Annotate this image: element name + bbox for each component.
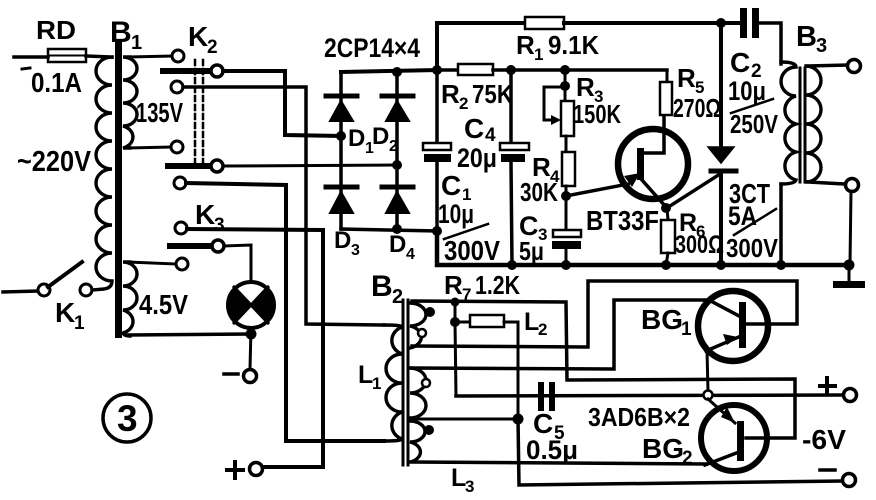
svg-text:2: 2 [207, 37, 218, 58]
svg-text:D: D [348, 125, 365, 152]
svg-text:1: 1 [372, 374, 381, 393]
wire AC input top lead [14, 55, 48, 59]
svg-text:135V: 135V [136, 97, 183, 128]
wire L2 line down to R7 [454, 302, 457, 322]
svg-text:1: 1 [534, 45, 543, 64]
wire 4.5V top tap [128, 262, 176, 264]
svg-text:1.2K: 1.2K [475, 270, 520, 300]
svg-text:4.5V: 4.5V [139, 289, 188, 320]
label plus [227, 462, 243, 478]
wire R7 left down to C5 line [455, 322, 456, 396]
svg-text:C: C [441, 170, 461, 201]
svg-text:5μ: 5μ [519, 236, 544, 266]
junction lamp / 4.5V bottom [246, 329, 257, 340]
transistor BG1 [698, 291, 768, 361]
diode D4 [382, 187, 413, 213]
stray mark [22, 68, 30, 69]
BG2 emitter arrowhead [721, 407, 735, 423]
capacitor C1 (on bridge output) [423, 70, 451, 231]
transformer B1 core [115, 40, 122, 338]
wire C5 line to plus terminal [456, 395, 842, 396]
resistor R5 [660, 70, 672, 115]
svg-text:3: 3 [351, 242, 360, 259]
wire K2 blade2 to bridge node B [223, 165, 395, 166]
L2 lower dot [418, 329, 426, 337]
terminal minus (4.5V) [244, 370, 257, 383]
svg-text:2: 2 [538, 320, 547, 339]
svg-text:5A: 5A [728, 201, 757, 231]
diode branch D2-D4 vertical [395, 72, 399, 229]
diode D3 [326, 187, 357, 213]
wire K2 row3 to B2 L1 top [183, 87, 384, 325]
svg-text:L: L [358, 361, 373, 389]
svg-text:9.1K: 9.1K [548, 30, 599, 60]
switch K3 contact rowA [174, 177, 186, 189]
wire K3 rowB to plus terminal [187, 229, 323, 467]
wire L3 top to BG1 base [412, 300, 711, 369]
junction C4 bottom [507, 260, 517, 270]
winding L1 [384, 325, 402, 441]
capacitor C4 (after R2) [500, 70, 529, 265]
B1 secondary 135V winding [123, 57, 137, 148]
svg-text:3: 3 [117, 398, 138, 439]
junction bridge minus output [432, 226, 442, 236]
switch K1 [38, 262, 92, 296]
svg-text:1: 1 [681, 319, 692, 340]
svg-text:R: R [516, 30, 535, 60]
bridge bottom rail [341, 229, 437, 231]
svg-text:1: 1 [131, 32, 142, 54]
label minus [224, 372, 238, 376]
switch K2 contact row4 (135V bottom) [171, 141, 183, 153]
svg-text:10μ: 10μ [728, 76, 766, 106]
node A junction (AC in left) [336, 131, 346, 141]
svg-text:30K: 30K [520, 177, 558, 207]
capacitor C3 [552, 230, 581, 265]
label plus output [820, 378, 835, 393]
terminal B3 bottom [846, 179, 859, 192]
switch K2 contact row1 (135V top) [172, 50, 184, 62]
junction R7 left [450, 317, 460, 327]
junction emitter node [561, 191, 571, 201]
junction bridge bottom D4 [392, 224, 402, 234]
terminal plus (bottom) [250, 463, 263, 476]
svg-text:B: B [110, 16, 132, 49]
wire lamp bottom to minus terminal [250, 328, 251, 369]
junction C3 bottom [561, 260, 571, 270]
wire R1 to C2 [564, 21, 741, 25]
indicator lamp [227, 282, 274, 328]
L2 polarity dot [425, 307, 435, 317]
unijunction transistor BT33F [566, 115, 688, 207]
resistor R7 [455, 315, 518, 419]
svg-text:D: D [372, 123, 389, 150]
emitter junction circle on plus line [704, 391, 713, 400]
svg-text:3: 3 [465, 477, 474, 496]
wire L2 bottom to BG1 collector [412, 281, 797, 347]
switch K3 contact rowB [175, 222, 187, 234]
svg-text:BT33F: BT33F [586, 205, 659, 236]
svg-text:BG: BG [642, 433, 684, 464]
junction R6 bottom [661, 260, 671, 270]
svg-text:0.5μ: 0.5μ [526, 435, 578, 465]
resistor R2 [458, 64, 493, 75]
L3 lower polarity dot [424, 425, 434, 435]
terminal minus output [843, 474, 856, 487]
wire bridge minus to bottom rail [437, 231, 849, 265]
svg-text:BG: BG [641, 304, 683, 335]
svg-text:D: D [389, 231, 406, 258]
wire R4 to emitter node [565, 186, 568, 230]
svg-text:0.1A: 0.1A [31, 67, 82, 98]
junction top rail / SCR anode [716, 18, 726, 28]
wire 4.5V bottom tap to lamp [128, 334, 251, 335]
svg-text:10μ: 10μ [438, 199, 474, 229]
svg-text:K: K [195, 199, 215, 230]
svg-text:-6V: -6V [802, 424, 846, 455]
wire K3 blade to lamp [224, 245, 251, 282]
thyristor 3CT [670, 23, 736, 265]
svg-text:250V: 250V [730, 109, 779, 139]
wire L3 mid tap [412, 418, 518, 421]
svg-text:L: L [524, 308, 539, 336]
switch K2 contact row3 [171, 81, 183, 93]
fuse RD 0.1A [48, 49, 112, 62]
junction ground node [844, 260, 855, 271]
resistor R4 [562, 152, 575, 186]
wire K3 rowA to B2 L1 bottom [186, 183, 384, 441]
junction C4 top [506, 65, 516, 75]
svg-text:20μ: 20μ [457, 143, 497, 173]
svg-text:K: K [55, 297, 75, 328]
svg-text:B: B [371, 270, 393, 303]
capacitor C2 [740, 8, 781, 64]
wire AC input bottom lead [3, 291, 37, 292]
wire junction down to minus rail [518, 419, 842, 485]
junction bridge plus output [432, 65, 442, 75]
L3 upper dot [422, 379, 430, 387]
svg-text:R: R [441, 79, 460, 109]
winding L2 [410, 303, 426, 348]
switch K2 blade2 [168, 160, 223, 172]
B1 primary winding [92, 57, 112, 290]
svg-text:2CP14×4: 2CP14×4 [324, 33, 420, 63]
figure number 3 [103, 394, 151, 442]
svg-text:3: 3 [214, 215, 225, 236]
winding L3 lower [410, 421, 425, 462]
svg-text:R: R [444, 270, 463, 300]
svg-text:D: D [334, 227, 351, 254]
transistor BG2 [701, 405, 767, 471]
B1 secondary 4.5V winding [123, 262, 137, 336]
svg-text:C: C [730, 47, 750, 78]
svg-text:R: R [677, 63, 696, 93]
svg-text:3AD6B×2: 3AD6B×2 [588, 402, 690, 432]
node B junction (AC in right) [392, 160, 402, 170]
wire 135V top tap to K2 [128, 56, 172, 57]
svg-text:4: 4 [406, 246, 415, 263]
svg-text:L: L [451, 464, 466, 492]
transformer B3 secondary winding [806, 66, 821, 182]
wire top rail to R1 [437, 23, 525, 70]
svg-text:1: 1 [74, 313, 85, 334]
junction SCR cathode bottom [716, 260, 726, 270]
wire BG1 emitter to plus line [707, 350, 708, 391]
fraction slash C1 [444, 224, 488, 239]
svg-text:300V: 300V [444, 235, 500, 266]
junction L3 tap / R7 [513, 414, 524, 425]
svg-text:2: 2 [682, 448, 693, 469]
svg-text:270Ω: 270Ω [673, 93, 721, 123]
potentiometer R3 [544, 70, 574, 152]
svg-text:300V: 300V [726, 233, 779, 263]
wire B3 bottom terminal to ground [850, 191, 851, 265]
wire L3 bottom to BG2 base [412, 462, 706, 464]
wire K2 blade1 to bridge node A [223, 71, 341, 136]
terminal B3 top [848, 60, 861, 73]
transformer B3 primary winding [781, 62, 796, 184]
svg-text:C: C [464, 113, 484, 144]
wire B3 primary bottom to rail [779, 184, 783, 265]
ground [833, 265, 865, 288]
transformer B2 core [403, 300, 408, 465]
svg-text:R: R [576, 72, 595, 102]
junction BT33F base1 / gate [661, 203, 671, 213]
junction R7 tap on L2 line [451, 298, 460, 307]
svg-text:75K: 75K [472, 79, 513, 109]
svg-text:2: 2 [459, 94, 468, 113]
switch K2 blade1 [163, 65, 223, 77]
diode D2 [382, 96, 413, 121]
winding L3 upper [410, 368, 426, 418]
terminal plus output [844, 389, 857, 402]
junction bridge top D2 [392, 67, 402, 77]
svg-text:~220V: ~220V [17, 146, 92, 178]
bridge top rail [341, 70, 437, 72]
svg-text:2: 2 [389, 138, 398, 155]
diode D1 [326, 96, 357, 121]
diode branch D1-D3 vertical [339, 72, 343, 229]
resistor R1 [525, 17, 564, 29]
fraction slash C2 [731, 99, 773, 113]
junction B3 primary bottom [776, 260, 786, 270]
svg-text:2: 2 [392, 286, 403, 308]
wire plus line to BG2 emitter [708, 399, 735, 423]
wire B3 secondary top to terminal [808, 65, 847, 66]
fraction slash 3CT [734, 209, 776, 235]
switch K3 blade [170, 240, 224, 252]
svg-text:300Ω: 300Ω [675, 231, 724, 259]
capacitor C5 [538, 382, 555, 411]
positive rail R2 to R5 corner [493, 68, 667, 72]
K2 gang dashed linkage [195, 60, 203, 163]
svg-text:3: 3 [816, 35, 827, 57]
wire B3 secondary bottom to terminal [808, 182, 845, 184]
svg-text:K: K [188, 21, 208, 52]
svg-text:B: B [796, 21, 817, 53]
transformer B3 core [800, 68, 805, 182]
positive rail y70 [437, 68, 458, 72]
junction R3 top [560, 65, 570, 75]
wire 135V bottom tap [128, 147, 171, 148]
svg-text:RD: RD [36, 15, 76, 45]
svg-text:150K: 150K [573, 99, 621, 129]
resistor R6 [661, 208, 675, 265]
wire L2 top to BG2 collector loop [412, 301, 795, 438]
label minus output [820, 468, 835, 472]
terminal 4.5V top [176, 258, 188, 270]
